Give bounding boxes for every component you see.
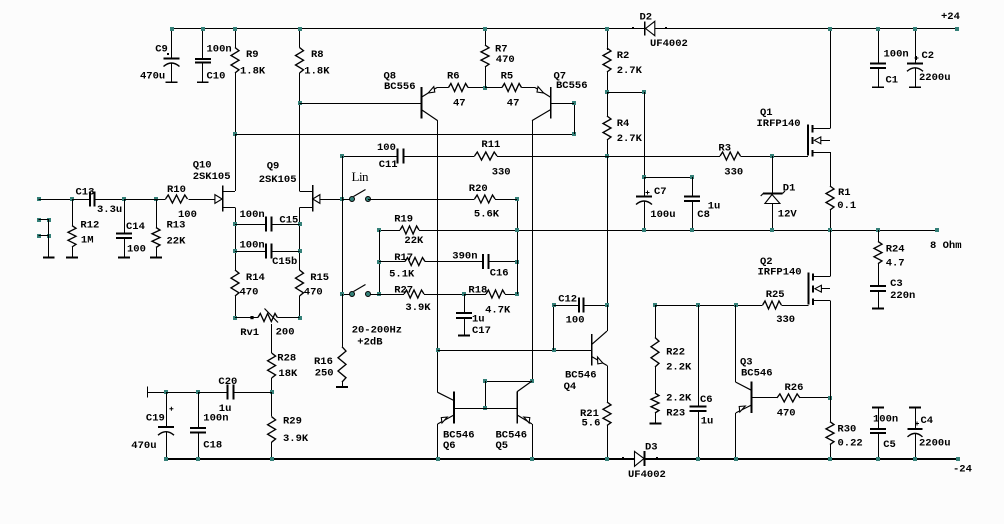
wire bias row: [653, 303, 657, 307]
node input gnd2: [37, 234, 41, 238]
svg-text:C4: C4: [921, 415, 934, 427]
svg-text:R4: R4: [617, 118, 630, 130]
svg-text:18K: 18K: [278, 368, 298, 380]
node R2 top: [605, 27, 609, 31]
capacitor C15: [233, 222, 237, 226]
svg-text:R27: R27: [394, 285, 413, 297]
node input signal: [37, 197, 41, 201]
wire -24 rail: [166, 458, 635, 460]
svg-text:R19: R19: [394, 213, 413, 225]
svg-text:2SK105: 2SK105: [193, 171, 231, 183]
svg-text:470: 470: [240, 287, 259, 299]
resistor R17: [379, 261, 405, 263]
capacitor C16: [482, 254, 484, 269]
svg-text:100n: 100n: [207, 43, 232, 55]
node R28 bottom: [270, 390, 274, 394]
svg-text:R12: R12: [80, 220, 99, 232]
svg-text:330: 330: [776, 314, 795, 326]
svg-text:BC546: BC546: [565, 369, 597, 381]
resistor R29: [271, 392, 273, 417]
node Q6 emitter rail: [436, 457, 440, 461]
svg-text:R20: R20: [469, 183, 488, 195]
resistor R20: [368, 199, 475, 201]
node C18 bottom: [196, 457, 200, 461]
svg-text:R2: R2: [617, 50, 630, 62]
svg-text:20-200Hz: 20-200Hz: [352, 324, 402, 336]
node out terminal: [935, 228, 939, 232]
svg-text:C7: C7: [654, 186, 667, 198]
node R8 top: [298, 27, 302, 31]
mosfet Q1: [807, 124, 809, 155]
resistor R28: [268, 353, 276, 378]
wire fb right column: [517, 199, 519, 294]
svg-text:Lin: Lin: [352, 169, 370, 184]
wire C7 C8 top: [642, 175, 646, 179]
wire C20 row: [147, 387, 149, 398]
resistor R23: [655, 367, 657, 393]
svg-text:5.1K: 5.1K: [389, 269, 415, 281]
node R18 right: [515, 292, 519, 296]
svg-text:1u: 1u: [472, 313, 485, 325]
svg-text:100n: 100n: [240, 209, 265, 221]
resistor R18: [464, 294, 486, 296]
node R7 top: [483, 27, 487, 31]
node R17 left: [377, 260, 381, 264]
node +24 terminal: [955, 27, 959, 31]
node C9 top: [170, 27, 174, 31]
resistor R25: [763, 301, 782, 309]
svg-text:2.2K: 2.2K: [666, 393, 692, 405]
svg-text:C12: C12: [558, 294, 577, 306]
node R20 right: [515, 197, 519, 201]
resistor R7: [485, 29, 487, 46]
node sw2 right: [377, 292, 381, 296]
capacitor C20: [226, 385, 228, 400]
transistor Q7: [550, 87, 552, 118]
svg-text:IRFP140: IRFP140: [758, 266, 802, 278]
node C19 bottom: [164, 457, 168, 461]
node Q7Q8 base net: [572, 132, 576, 136]
wire Q8 emitter: [437, 87, 449, 89]
resistor R8: [299, 29, 301, 48]
svg-text:100u: 100u: [650, 209, 675, 221]
svg-text:C20: C20: [218, 376, 237, 388]
resistor R6: [449, 84, 469, 92]
switch sub: [342, 294, 352, 296]
transistor Q8: [420, 87, 422, 118]
resistor R14: [231, 270, 239, 296]
node R9 top: [233, 27, 237, 31]
ground C3: [872, 307, 884, 309]
svg-text:R11: R11: [481, 139, 500, 151]
svg-text:BC556: BC556: [384, 81, 416, 93]
wire Q8 collector column: [437, 121, 439, 393]
svg-text:330: 330: [724, 166, 743, 178]
resistor R30: [830, 398, 832, 422]
svg-text:47: 47: [507, 98, 520, 110]
svg-text:2.7K: 2.7K: [617, 133, 643, 145]
svg-text:220n: 220n: [890, 290, 915, 302]
capacitor C17: [464, 294, 466, 313]
node C7 bottom: [642, 228, 646, 232]
wire output rail: [379, 230, 400, 232]
svg-text:12V: 12V: [778, 208, 798, 220]
capacitor C11: [342, 156, 398, 158]
node R7 bottom: [483, 86, 487, 90]
svg-text:470: 470: [496, 54, 515, 66]
resistor R4: [607, 92, 609, 116]
resistor R16: [342, 294, 344, 347]
svg-text:C1: C1: [886, 74, 899, 86]
svg-text:3.3u: 3.3u: [97, 204, 122, 216]
wire lin column: [342, 156, 344, 294]
node R27 left: [377, 292, 381, 296]
resistor R19: [400, 226, 419, 234]
ground R23: [650, 423, 662, 425]
svg-text:D3: D3: [645, 441, 658, 453]
svg-text:100n: 100n: [884, 48, 909, 60]
svg-text:C5: C5: [883, 439, 896, 451]
node C16 right: [515, 260, 519, 264]
svg-text:R17: R17: [394, 252, 413, 264]
node R30 bottom: [828, 457, 832, 461]
diode D3: [622, 457, 624, 459]
svg-text:+2dB: +2dB: [357, 336, 383, 348]
node C19 top: [164, 390, 168, 394]
mosfet Q2: [807, 273, 809, 305]
svg-text:R18: R18: [468, 284, 487, 296]
svg-text:470: 470: [304, 287, 323, 299]
svg-text:330: 330: [492, 166, 511, 178]
ground C1: [872, 86, 884, 88]
capacitor C19: [166, 392, 168, 427]
svg-text:100n: 100n: [873, 414, 898, 426]
node R21 bottom: [605, 457, 609, 461]
switch Lin: [342, 199, 352, 201]
svg-text:22K: 22K: [404, 235, 424, 247]
trimmer Rv1: [233, 316, 237, 320]
node C4 bottom: [913, 457, 917, 461]
svg-text:C18: C18: [203, 439, 222, 451]
svg-text:BC546: BC546: [741, 367, 773, 379]
svg-text:1M: 1M: [81, 235, 94, 247]
node C6 bottom: [696, 457, 700, 461]
svg-text:UF4002: UF4002: [628, 469, 666, 481]
wire bases rail: [235, 134, 574, 136]
svg-text:470u: 470u: [140, 70, 165, 82]
resistor R2: [607, 29, 609, 51]
jfet Q9: [312, 185, 314, 211]
svg-text:BC556: BC556: [556, 80, 588, 92]
resistor R1: [826, 186, 834, 210]
diode D2: [644, 22, 646, 36]
svg-text:R25: R25: [766, 289, 785, 301]
svg-text:C9: C9: [155, 43, 168, 55]
svg-text:3.9K: 3.9K: [405, 302, 431, 314]
capacitor C7: [636, 196, 652, 198]
capacitor C12: [554, 305, 579, 307]
svg-text:R6: R6: [447, 70, 460, 82]
node Q4 base tap: [436, 348, 440, 352]
svg-text:0.22: 0.22: [838, 438, 863, 450]
svg-text:D2: D2: [640, 11, 653, 23]
svg-text:R30: R30: [837, 423, 856, 435]
svg-text:D1: D1: [783, 183, 796, 195]
svg-text:R29: R29: [283, 416, 302, 428]
wire Q6 base: [454, 408, 485, 410]
wire input: [39, 199, 72, 201]
svg-text:R3: R3: [718, 142, 731, 154]
wire Q7 collector column: [532, 121, 534, 381]
wire Q5 base: [485, 408, 517, 410]
svg-text:2SK105: 2SK105: [259, 174, 297, 186]
svg-text:R13: R13: [167, 220, 186, 232]
wire +24 rail: [172, 28, 645, 30]
svg-text:Q10: Q10: [193, 160, 212, 172]
svg-text:2200u: 2200u: [919, 438, 951, 450]
wire fb column: [379, 230, 381, 294]
svg-text:R16: R16: [314, 356, 333, 368]
svg-text:R5: R5: [501, 70, 514, 82]
node R2 bottom: [605, 90, 609, 94]
node Q2 source: [828, 396, 832, 400]
node input gnd1: [37, 218, 41, 222]
svg-text:C2: C2: [922, 50, 935, 62]
resistor R12: [70, 197, 74, 201]
ground R16: [336, 386, 348, 388]
resistor R22: [655, 305, 657, 338]
resistor R5: [485, 87, 502, 89]
svg-text:C6: C6: [700, 394, 713, 406]
wire R2-C7 branch: [607, 92, 644, 94]
node Q1 drain rail: [828, 27, 832, 31]
wire VAS column: [607, 156, 609, 305]
jfet Q10: [222, 185, 224, 211]
svg-text:C15b: C15b: [272, 256, 297, 268]
svg-text:200: 200: [276, 327, 295, 339]
svg-text:C10: C10: [207, 70, 226, 82]
ground C9: [166, 81, 178, 83]
svg-text:Q4: Q4: [564, 381, 577, 393]
svg-text:-24: -24: [953, 463, 972, 475]
zener D1: [772, 156, 774, 194]
node C2 top: [913, 27, 917, 31]
svg-text:UF4002: UF4002: [650, 38, 688, 50]
wire C12 column: [553, 305, 555, 350]
svg-text:5.6: 5.6: [582, 417, 601, 429]
node C10 top: [201, 27, 205, 31]
svg-text:R22: R22: [666, 346, 685, 358]
svg-text:R1: R1: [838, 187, 851, 199]
ground C10: [197, 81, 209, 83]
capacitor C5: [872, 406, 884, 408]
wire Q4 base row: [438, 350, 592, 352]
svg-text:1u: 1u: [701, 415, 714, 427]
svg-text:470u: 470u: [131, 440, 156, 452]
svg-text:C13: C13: [76, 186, 95, 198]
capacitor C2: [915, 29, 917, 64]
svg-text:4.7: 4.7: [886, 257, 905, 269]
node rail-fb: [515, 228, 519, 232]
node D1 bottom: [770, 228, 774, 232]
svg-text:100: 100: [178, 209, 197, 221]
svg-text:+24: +24: [941, 11, 960, 23]
svg-text:100n: 100n: [240, 240, 265, 252]
node R29 bottom: [270, 457, 274, 461]
svg-text:470: 470: [777, 408, 796, 420]
node Lin sw: [340, 197, 344, 201]
svg-text:C14: C14: [126, 221, 145, 233]
transistor Q5: [516, 392, 518, 424]
svg-text:47: 47: [453, 98, 466, 110]
svg-text:5.6K: 5.6K: [474, 208, 500, 220]
capacitor C13: [72, 199, 90, 201]
svg-text:22K: 22K: [167, 236, 187, 248]
svg-text:100n: 100n: [203, 412, 228, 424]
svg-text:C11: C11: [379, 159, 398, 171]
node C18 top: [196, 390, 200, 394]
wire input gnd: [48, 220, 50, 258]
wire Q9 gate: [320, 199, 342, 201]
resistor R26: [777, 394, 800, 402]
resistor R27: [379, 294, 404, 296]
svg-text:2.7K: 2.7K: [617, 65, 643, 77]
capacitor C15b: [233, 249, 237, 253]
resistor R11: [475, 152, 498, 160]
ground C17: [458, 335, 470, 337]
ground C14: [118, 257, 130, 259]
svg-text:C3: C3: [890, 278, 903, 290]
resistor R13: [154, 197, 158, 201]
node R9 bottom junction: [233, 132, 237, 136]
resistor R3: [607, 156, 720, 158]
wire Q5Q6 link: [485, 381, 532, 383]
node Q4 collector: [605, 303, 609, 307]
node C5 bottom: [876, 457, 880, 461]
ground R12: [66, 257, 78, 259]
svg-text:100: 100: [127, 243, 146, 255]
svg-text:100: 100: [377, 142, 396, 154]
node Q1 gate: [770, 154, 774, 158]
resistor R10: [156, 199, 166, 201]
node R19 left: [377, 228, 381, 232]
capacitor C3: [870, 285, 886, 287]
svg-text:8 Ohm: 8 Ohm: [930, 240, 962, 252]
svg-text:R10: R10: [167, 184, 186, 196]
resistor R24: [876, 228, 880, 232]
transistor Q3: [735, 305, 737, 382]
svg-text:4.7K: 4.7K: [485, 304, 511, 316]
transistor Q6: [453, 392, 455, 424]
node R1 bottom: [828, 228, 832, 232]
ground R13: [150, 257, 162, 259]
svg-text:R15: R15: [310, 272, 329, 284]
svg-text:Rv1: Rv1: [240, 327, 259, 339]
capacitor C6: [698, 305, 700, 407]
capacitor C10: [202, 29, 204, 59]
svg-text:1.8K: 1.8K: [304, 65, 330, 77]
svg-text:Q5: Q5: [496, 440, 509, 452]
svg-text:C16: C16: [490, 268, 509, 280]
resistor R21: [603, 402, 611, 426]
capacitor C8: [692, 177, 694, 197]
svg-text:R24: R24: [886, 244, 905, 256]
svg-text:R9: R9: [246, 49, 259, 61]
node VAS: [605, 154, 609, 158]
node C8 bottom: [690, 228, 694, 232]
svg-text:3.9K: 3.9K: [283, 433, 309, 445]
resistor R9: [235, 29, 237, 48]
capacitor C18: [190, 427, 206, 429]
svg-text:R14: R14: [246, 272, 265, 284]
node C1 top: [876, 27, 880, 31]
transistor Q4: [591, 334, 593, 365]
svg-text:2.2K: 2.2K: [666, 361, 692, 373]
node Q3 emitter rail: [734, 457, 738, 461]
svg-text:C8: C8: [697, 209, 710, 221]
svg-text:C19: C19: [146, 412, 165, 424]
svg-text:250: 250: [315, 368, 334, 380]
capacitor C1: [878, 29, 880, 64]
svg-text:1.8K: 1.8K: [240, 65, 266, 77]
svg-text:2200u: 2200u: [919, 72, 951, 84]
svg-text:C17: C17: [472, 325, 491, 337]
svg-text:R23: R23: [666, 407, 685, 419]
resistor R15: [296, 270, 304, 296]
node C11 left: [340, 154, 344, 158]
svg-text:Q9: Q9: [267, 160, 280, 172]
svg-text:390n: 390n: [452, 250, 477, 262]
capacitor C4: [909, 406, 921, 408]
capacitor C9: [171, 29, 173, 59]
capacitor C14: [122, 197, 126, 201]
node -24 terminal: [956, 457, 960, 461]
ground C2: [909, 86, 921, 88]
svg-text:0.1: 0.1: [837, 200, 856, 212]
svg-text:100: 100: [566, 314, 585, 326]
wire R6-R7: [468, 87, 485, 89]
svg-text:R8: R8: [311, 49, 324, 61]
node C17 top: [462, 292, 466, 296]
wire Q8 base: [300, 103, 422, 105]
svg-text:Q6: Q6: [443, 440, 456, 452]
svg-text:IRFP140: IRFP140: [757, 118, 801, 130]
ground input: [43, 257, 55, 259]
node sw2 left: [340, 292, 344, 296]
svg-text:R28: R28: [277, 352, 296, 364]
svg-text:R26: R26: [785, 382, 804, 394]
svg-text:C15: C15: [279, 214, 298, 226]
node R8 base tap: [298, 101, 302, 105]
node Q5 emitter rail: [530, 457, 534, 461]
